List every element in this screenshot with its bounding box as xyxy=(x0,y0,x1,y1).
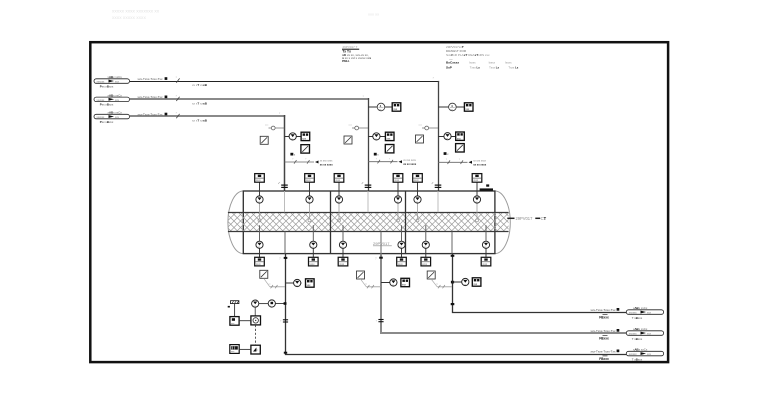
svg-text:xxxxxx: xxxxxx xyxy=(629,312,637,315)
svg-text:29PV017 T: 29PV017 T xyxy=(343,45,358,49)
pipe1 relief line xyxy=(285,159,334,167)
svg-text:Ixxxx: Ixxxx xyxy=(505,61,512,65)
svg-text:T xBxxx: T xBxxx xyxy=(632,316,643,320)
svg-text:BxCxxxx: BxCxxxx xyxy=(446,61,459,65)
pipe3 mid bubble xyxy=(444,133,451,141)
pipe2 upper gauge bubble xyxy=(377,103,385,111)
pipe2 vent tap xyxy=(349,125,369,130)
pipe1 spectacle blind xyxy=(260,136,268,144)
drain2 vessel tick xyxy=(379,257,383,259)
pipe1 nozzle flange xyxy=(278,182,288,187)
pipe1 mid branch xyxy=(285,136,302,138)
svg-text:7: 7 xyxy=(176,95,178,97)
svg-text:x: x xyxy=(377,154,379,156)
pipe3 lower diag box xyxy=(456,144,465,152)
note block B xyxy=(446,45,519,69)
pipe3 tag square xyxy=(444,152,447,155)
bottom inner bubble 5 xyxy=(422,241,429,249)
pipe1 mid instrument box xyxy=(301,132,310,140)
svg-text:FBxxx: FBxxx xyxy=(599,357,609,361)
top inner dip tubes xyxy=(260,203,478,219)
pipe3 vent tap xyxy=(419,125,439,130)
svg-text:xxxxx xxxx xxxxxxx xx: xxxxx xxxx xxxxxxx xx xyxy=(112,10,160,15)
pipe3 nozzle flange xyxy=(432,182,442,187)
riser pipe 3 (x=438) xyxy=(438,81,440,191)
drain pipe 1 xyxy=(285,254,287,355)
recorder box A4 xyxy=(251,345,260,354)
feed stub 1 in vessel xyxy=(284,191,286,212)
riser pipe 1 (x=284.5) xyxy=(284,115,286,191)
svg-text:PEH.: PEH. xyxy=(342,59,349,63)
svg-text:T xBxxx: T xBxxx xyxy=(632,357,643,361)
outlet line 2 (y=333) xyxy=(380,332,626,334)
svg-text:7: 7 xyxy=(279,258,281,261)
bottom instrument flag LG-2 xyxy=(309,257,319,266)
comp1 drain branch xyxy=(285,282,302,284)
bottom nozzle stems xyxy=(260,248,487,257)
feed stub 3 in vessel xyxy=(437,191,439,212)
svg-text:29PV017: 29PV017 xyxy=(373,241,390,246)
border frame xyxy=(90,42,668,362)
comp2 drain bubble xyxy=(390,279,397,287)
pipe2 mid branch xyxy=(368,136,386,138)
svg-text:7: 7 xyxy=(279,113,281,115)
top instrument flag LT-5 xyxy=(413,174,423,183)
svg-text:xx xT xxxB: xx xT xxxB xyxy=(192,83,208,87)
sample bubble 2 xyxy=(268,300,275,307)
svg-text:xxxxxx: xxxxxx xyxy=(629,353,637,356)
svg-text:xxx-Txxx-Txxx-Txx: xxx-Txxx-Txxx-Txx xyxy=(591,308,616,312)
drain3 vessel tick xyxy=(451,255,455,257)
top inner bubble 2 xyxy=(306,196,313,204)
vessel right callout xyxy=(507,217,514,219)
top instrument flag LT-6 xyxy=(472,174,482,183)
off-page connector IN-3 xyxy=(94,111,130,124)
pipe2 relief line xyxy=(368,158,417,166)
top inner bubble 3 xyxy=(335,196,342,204)
svg-text:xxxxxx: xxxxxx xyxy=(97,116,105,119)
vessel 29PV017 shell xyxy=(243,191,495,254)
packing band bottom line xyxy=(228,231,509,233)
svg-text:7: 7 xyxy=(363,96,365,98)
svg-text:xxxxxx: xxxxxx xyxy=(97,81,105,84)
comp1 gray tap xyxy=(264,278,270,286)
compartment divider 1 xyxy=(330,191,332,254)
sample line xyxy=(259,303,268,305)
top instrument flag LT-4 xyxy=(393,174,403,183)
svg-text:FBxxx: FBxxx xyxy=(599,337,609,341)
svg-text:xx: xx xyxy=(436,284,438,286)
bottom instrument flag LG-3 xyxy=(338,257,348,266)
outlet 1 label xyxy=(591,308,620,320)
comp2 gray tap xyxy=(361,279,367,287)
svg-text:FBxxx: FBxxx xyxy=(599,316,609,320)
drain3 branch junction xyxy=(451,281,454,284)
svg-text:CT: CT xyxy=(541,216,547,221)
comp1 drain diag box xyxy=(260,270,268,278)
top inner bubble 1 xyxy=(256,196,263,204)
svg-text:29PV017: 29PV017 xyxy=(516,216,534,221)
recorder box A3 xyxy=(230,345,239,354)
svg-text:Ixxxx: Ixxxx xyxy=(489,61,496,65)
svg-text:xx xT xxxB: xx xT xxxB xyxy=(192,119,208,123)
off-page connector OUT-1 xyxy=(626,306,663,320)
svg-text:xxx-Txxx-Txxx-Txx: xxx-Txxx-Txxx-Txx xyxy=(591,329,616,333)
feed stub 2 in vessel xyxy=(367,191,369,212)
feed line 3 (y=116.5) xyxy=(130,115,285,117)
pipe2 upper instrument box xyxy=(392,103,401,111)
svg-text:xxx-Txxx-Txxx-Txx: xxx-Txxx-Txxx-Txx xyxy=(138,112,163,116)
outlet line 3 (y=353.5) xyxy=(285,354,626,356)
bottom inner dip tubes xyxy=(260,225,487,241)
svg-text:xx: xx xyxy=(365,284,367,286)
line 3 label xyxy=(138,112,208,122)
svg-text:xx xT xxxB: xx xT xxxB xyxy=(192,101,208,105)
bottom inner bubble 3 xyxy=(339,241,346,249)
top inner bubble 4 xyxy=(394,196,401,204)
note block A xyxy=(342,45,371,63)
comp3 gray tap xyxy=(431,279,437,287)
top inner bubble 5 xyxy=(414,196,421,204)
svg-text:7: 7 xyxy=(176,77,178,79)
line 2 label xyxy=(138,95,208,105)
pipe3 mid branch xyxy=(438,136,456,138)
svg-text:Pxx xBxxx: Pxx xBxxx xyxy=(100,103,114,107)
pipe2 upper branch line xyxy=(368,106,392,108)
bottom instrument flag LG-6 xyxy=(481,257,491,266)
comp3 drain branch xyxy=(452,281,469,283)
pipe3 mid instrument box xyxy=(456,132,465,140)
top nozzle stems xyxy=(260,182,478,196)
drain1 break xyxy=(280,320,288,323)
pipe3 upper branch line xyxy=(438,106,464,108)
comp3 drain diag box xyxy=(427,271,435,279)
pipe1 tag square xyxy=(290,153,293,156)
compartment divider 2 xyxy=(405,191,407,254)
pipe2 spectacle blind xyxy=(344,136,352,144)
pipe2 tag square xyxy=(374,153,377,156)
pipe2 mid bubble xyxy=(373,133,380,141)
svg-text:xxxx xxxxx xxxx: xxxx xxxxx xxxx xyxy=(112,16,146,21)
pipe3 upper instrument box xyxy=(464,103,473,111)
drain stub 3 in vessel xyxy=(451,232,453,254)
pipe2 mid instrument box xyxy=(385,132,394,140)
bottom inner bubble 6 xyxy=(482,241,489,249)
outlet line 1 (y=312) xyxy=(452,312,626,314)
comp3 drain bubble xyxy=(462,278,469,286)
analyzer box A1 xyxy=(230,317,239,326)
pipe2 nozzle flange xyxy=(362,182,372,187)
line 1 label xyxy=(138,77,208,87)
comp3 drain box xyxy=(472,278,481,286)
svg-text:SxLFxR PLAxT REAxTxRS xxx: SxLFxR PLAxT REAxTxRS xxx xyxy=(446,53,490,57)
outlet 3 label xyxy=(591,349,620,361)
bottom instrument flag LG-5 xyxy=(421,257,431,266)
svg-text:Ixxxx: Ixxxx xyxy=(469,61,476,65)
recorder link line xyxy=(239,348,251,350)
bottom instrument flag LG-1 xyxy=(255,257,265,266)
comp2 drain diag box xyxy=(357,271,365,279)
pipe1 mid bubble xyxy=(289,133,296,141)
pipe3 upper gauge bubble xyxy=(449,103,457,111)
drain pipe 3 xyxy=(452,254,454,313)
reinforcing pad xyxy=(480,188,493,190)
svg-text:xxxxxx: xxxxxx xyxy=(97,99,105,102)
drain3 lower tick xyxy=(451,303,455,305)
off-page connector IN-1 xyxy=(94,75,130,88)
svg-text:7: 7 xyxy=(375,257,377,260)
off-page connector OUT-2 xyxy=(626,327,663,341)
svg-text:xxx-Txxx-Txxx-Txx: xxx-Txxx-Txxx-Txx xyxy=(138,77,163,81)
vessel 29PV017 right head xyxy=(495,191,510,254)
bottom inner bubble 2 xyxy=(310,241,317,249)
packing band top line xyxy=(228,212,509,214)
drain stub 1 in vessel xyxy=(284,232,286,254)
svg-text:Txxx Lx: Txxx Lx xyxy=(508,65,518,69)
bottom inner bubble 4 xyxy=(398,241,405,249)
feed line 2 (y=99.3) xyxy=(130,98,369,100)
bottom instrument flag LG-4 xyxy=(397,257,407,266)
comp2 drain box xyxy=(401,278,410,286)
svg-text:xxx xx: xxx xx xyxy=(368,12,379,17)
drain stub 2 in vessel xyxy=(380,232,382,254)
svg-text:xxx-Txxx-Txxx-Txx: xxx-Txxx-Txxx-Txx xyxy=(591,349,616,353)
off-page connector IN-2 xyxy=(94,94,130,107)
packing band crosshatch xyxy=(228,212,509,231)
top inner bubble 6 xyxy=(473,196,480,204)
sample bubble 1 xyxy=(252,300,259,308)
svg-text:xxx-Txxx-Txxx-Txx: xxx-Txxx-Txxx-Txx xyxy=(138,95,163,99)
analyzer box A2 xyxy=(251,316,261,325)
svg-text:7: 7 xyxy=(433,78,435,80)
svg-text:SxP: SxP xyxy=(446,65,452,69)
feed line 1 (y=81) xyxy=(130,81,439,83)
top instrument flag LT-3 xyxy=(334,174,344,183)
svg-text:Txxx Lx: Txxx Lx xyxy=(470,65,480,69)
drain1 corner tick xyxy=(284,352,287,354)
off-page connector OUT-3 xyxy=(626,348,663,362)
svg-text:x: x xyxy=(447,154,449,156)
svg-text:xx: xx xyxy=(269,305,271,307)
pad marker xyxy=(486,184,489,186)
outlet 2 label xyxy=(591,329,620,341)
analyzer link line xyxy=(239,320,251,322)
drain pipe 2 xyxy=(380,254,382,334)
comp2 drain branch xyxy=(381,282,397,284)
svg-text:7: 7 xyxy=(176,113,178,115)
drain1 vessel tick xyxy=(284,257,288,259)
pipe3 relief line xyxy=(438,159,487,167)
riser pipe 2 (x=368) xyxy=(368,98,370,191)
bottom inner bubble 1 xyxy=(256,241,263,249)
drain2 break xyxy=(376,320,384,323)
analyzer dashed signal xyxy=(255,325,257,345)
svg-text:x: x xyxy=(294,154,296,156)
svg-text:Txxx Lx: Txxx Lx xyxy=(489,65,499,69)
pipe2 lower diag box xyxy=(385,145,394,153)
top instrument flag LT-1 xyxy=(255,174,265,183)
svg-text:xxxxxx: xxxxxx xyxy=(629,333,637,336)
svg-text:T xBxxx: T xBxxx xyxy=(632,337,643,341)
svg-text:Pxx xBxxx: Pxx xBxxx xyxy=(100,84,114,88)
comp1 drain box xyxy=(306,279,315,287)
drain funnel xyxy=(228,301,239,317)
pipe3 spectacle blind xyxy=(416,135,424,143)
vessel 29PV017 left head xyxy=(228,191,243,254)
svg-text:xx: xx xyxy=(269,284,271,286)
svg-text:Pxx xBxxx: Pxx xBxxx xyxy=(100,120,114,124)
pipe1 vent tap xyxy=(265,125,285,130)
comp1 drain bubble xyxy=(294,279,301,287)
top instrument flag LT-2 xyxy=(305,174,315,183)
pipe1 lower diag box xyxy=(301,145,310,153)
